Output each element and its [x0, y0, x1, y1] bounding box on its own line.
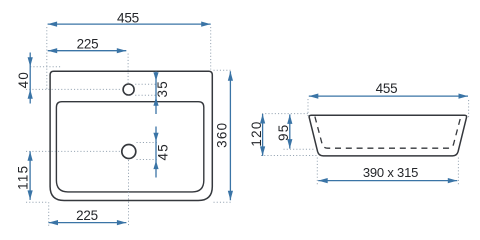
bottom edge extension right (360) — [214, 201, 233, 203]
dimension 95 line (side) — [289, 114, 291, 148]
extension line 40 top — [30, 66, 60, 68]
dimension 225 bottom line — [49, 222, 127, 224]
dimension 360 line — [229, 71, 231, 200]
extension line 225 top down to faucet — [127, 54, 129, 84]
extension line 95 bottom (side) — [284, 148, 316, 150]
dimension 40 line — [29, 53, 31, 104]
dimension 455 line (front) — [48, 23, 211, 25]
dimension 115 line — [29, 151, 31, 200]
dimension 35/45 shared vertical line — [155, 72, 157, 115]
svg-text:225: 225 — [77, 36, 99, 51]
dimension 455 line (side) — [309, 95, 468, 97]
bottom-left vertical extension for 225 — [48, 202, 50, 226]
basin outer profile (side view) — [309, 115, 466, 156]
sink outer outline (front view) — [50, 71, 212, 200]
svg-text:95: 95 — [276, 123, 291, 141]
svg-text:455: 455 — [376, 81, 398, 96]
extension line right of 455 (side) — [468, 100, 470, 119]
extension line 45 bottom tangent — [137, 159, 158, 161]
svg-text:40: 40 — [16, 71, 31, 89]
extension line 35 top tangent — [135, 83, 157, 85]
extension line left of 455 (front) — [46, 27, 48, 90]
svg-text:455: 455 — [117, 11, 139, 26]
dimension 45 arrowheads — [153, 133, 158, 142]
dimension 35 arrowheads — [153, 72, 158, 81]
top edge extension right for 360 — [214, 69, 233, 71]
extension line right of 455 (front) — [210, 27, 212, 70]
extension line 35 bottom tangent — [135, 94, 157, 96]
svg-text:390 x 315: 390 x 315 — [363, 165, 418, 180]
dimension 390x315 line (side) — [318, 180, 457, 182]
extension line left of 455 (side) — [307, 99, 309, 116]
drain centerline down to bottom 225 — [128, 160, 130, 226]
extension line 120/95 top (side) — [262, 113, 308, 115]
svg-text:45: 45 — [155, 143, 170, 161]
extension line 390 left (side) — [316, 158, 318, 187]
sink inner basin outline (front view) — [56, 102, 203, 192]
extension line 45 top tangent — [137, 142, 158, 144]
extension line 390 right (side) — [457, 158, 459, 187]
faucet hole — [123, 84, 134, 95]
svg-text:115: 115 — [16, 165, 31, 190]
dimension 120 line (side) — [262, 114, 264, 156]
svg-text:225: 225 — [76, 208, 98, 223]
basin inner dashed contour (side view) — [315, 117, 461, 149]
drain centerline left / 115 top extension — [26, 150, 121, 152]
faucet centerline left / 40 bottom extension — [26, 88, 122, 90]
dimension 225 top line — [48, 50, 127, 52]
svg-text:120: 120 — [249, 120, 264, 146]
svg-text:35: 35 — [155, 80, 170, 98]
bottom edge extension left (115/225) — [26, 201, 48, 203]
svg-text:360: 360 — [214, 122, 229, 148]
drain hole — [122, 145, 136, 159]
extension line 120 bottom (side) — [261, 155, 318, 157]
